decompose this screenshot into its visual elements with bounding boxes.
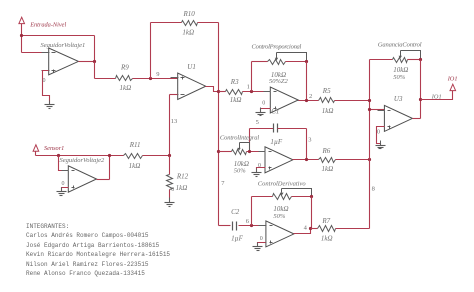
wire prop output bbox=[299, 100, 319, 102]
wire P3 left lead bbox=[252, 196, 273, 198]
wire P1 right lead bbox=[286, 61, 307, 63]
svg-text:9: 9 bbox=[156, 71, 159, 78]
wiper P1 bbox=[277, 53, 307, 62]
ground R12 bbox=[165, 198, 175, 207]
pin 8 label bbox=[372, 186, 375, 193]
svg-text:50%: 50% bbox=[234, 167, 247, 174]
node integral output junction bbox=[305, 158, 308, 161]
pin 5 label bbox=[256, 119, 259, 126]
node R5 bus junction bbox=[368, 99, 371, 102]
net 0 label integral bbox=[258, 163, 261, 169]
wiper P2 bbox=[240, 143, 250, 152]
wire P1 left lead bbox=[252, 61, 268, 63]
value P2 percent bbox=[234, 167, 247, 174]
ground A2 bbox=[57, 188, 67, 196]
svg-text:0: 0 bbox=[262, 100, 265, 106]
wire R6 to sum bus bbox=[336, 159, 370, 161]
svg-text:4: 4 bbox=[304, 225, 308, 232]
svg-text:0: 0 bbox=[43, 78, 46, 84]
net 0 label derivative bbox=[260, 236, 263, 242]
ground U3 bbox=[376, 141, 386, 149]
ground prop bbox=[256, 108, 266, 116]
wire derivative plus to ground bbox=[258, 243, 266, 247]
svg-text:1kΩ: 1kΩ bbox=[120, 84, 132, 92]
wire P3 right vertical bbox=[311, 197, 313, 229]
svg-text:ControlProporcional: ControlProporcional bbox=[252, 43, 302, 50]
label R9 bbox=[120, 63, 129, 71]
svg-text:10kΩ: 10kΩ bbox=[393, 66, 408, 74]
node A1 output junction bbox=[93, 60, 96, 63]
value R9 1k bbox=[120, 84, 132, 92]
svg-text:IO1: IO1 bbox=[431, 93, 442, 100]
pin 2 label bbox=[309, 93, 312, 100]
node bus integral junction bbox=[217, 150, 220, 153]
potentiometer GananciaControl bbox=[393, 51, 408, 63]
wire node 13 vertical bbox=[169, 95, 171, 156]
pin 13 label bbox=[171, 118, 178, 125]
svg-text:1kΩ: 1kΩ bbox=[322, 107, 334, 115]
svg-text:7: 7 bbox=[221, 180, 225, 187]
wire C2 to opamp bbox=[239, 225, 266, 227]
svg-text:R6: R6 bbox=[322, 147, 331, 155]
wire output down to R9 row bbox=[94, 62, 96, 79]
node derivative input junction bbox=[250, 224, 253, 227]
net label IO1 bbox=[447, 75, 458, 82]
node U1 output junction bbox=[217, 90, 220, 93]
value PG 10k bbox=[393, 66, 408, 74]
wiper GananciaControl bbox=[401, 51, 421, 60]
wiper P3 bbox=[282, 189, 312, 197]
value R11 1k bbox=[129, 162, 141, 170]
svg-text:10kΩ: 10kΩ bbox=[273, 205, 288, 213]
wire Sensor1 down bbox=[35, 152, 37, 156]
resistor R3 bbox=[226, 90, 243, 95]
wire IO1 bbox=[421, 91, 453, 100]
resistor R5 bbox=[319, 98, 335, 103]
svg-text:1µF: 1µF bbox=[270, 138, 283, 146]
pin 6 label bbox=[246, 218, 250, 225]
wire U3 plus to ground bbox=[377, 127, 385, 146]
resistor R10 bbox=[182, 21, 198, 26]
net 0 label U3 bbox=[377, 130, 380, 136]
wire to A1 minus input bbox=[22, 52, 49, 54]
ground A1 bbox=[45, 101, 55, 109]
pin 3 label bbox=[308, 137, 311, 144]
wire R10 left vertical bbox=[150, 23, 152, 79]
wire derivative output jog bbox=[294, 229, 311, 234]
node A2 output junction bbox=[108, 154, 111, 157]
node Ganancia wiper junction bbox=[419, 58, 422, 61]
wire U3 output bbox=[413, 118, 421, 120]
label R5 bbox=[322, 87, 331, 95]
value R12 1k bbox=[176, 184, 188, 192]
svg-text:1kΩ: 1kΩ bbox=[322, 165, 334, 173]
wire sum bus vertical bbox=[369, 60, 371, 229]
wire R12 to ground bbox=[169, 190, 171, 203]
node U3 minus junction bbox=[368, 108, 371, 111]
svg-text:0: 0 bbox=[171, 187, 174, 193]
value P3 percent bbox=[273, 213, 286, 220]
value R6 1k bbox=[322, 165, 334, 173]
op-amp SeguidorVoltaje1 bbox=[42, 48, 86, 75]
net label Entrada-Nivel bbox=[29, 21, 66, 28]
wire U1 output jog bbox=[206, 87, 219, 92]
ground integral bbox=[252, 169, 262, 177]
resistor R9 bbox=[116, 76, 133, 81]
wire A2 plus to ground bbox=[62, 188, 69, 192]
svg-text:0: 0 bbox=[377, 130, 380, 136]
label C1 bbox=[271, 108, 279, 116]
wire output vertical bbox=[420, 60, 422, 119]
value R7 1k bbox=[321, 234, 333, 242]
resistor R7 bbox=[318, 226, 336, 232]
svg-text:50%: 50% bbox=[273, 213, 286, 220]
svg-text:R11: R11 bbox=[129, 141, 141, 149]
wire Ganancia left lead bbox=[370, 59, 393, 61]
svg-text:U1: U1 bbox=[187, 63, 196, 71]
svg-text:U3: U3 bbox=[394, 95, 403, 103]
svg-text:SeguidorVoltaje2: SeguidorVoltaje2 bbox=[60, 157, 106, 164]
value C2 1uF bbox=[231, 234, 244, 242]
wire R10 right lead bbox=[198, 22, 219, 24]
pin 7 label bbox=[221, 180, 225, 187]
svg-text:ControlIntegral: ControlIntegral bbox=[220, 135, 259, 142]
node junction Entrada bbox=[20, 34, 23, 37]
resistor R6 bbox=[319, 158, 336, 163]
node 13 junction bbox=[168, 154, 171, 157]
wire follower1 feedback top bbox=[22, 35, 95, 37]
svg-text:6: 6 bbox=[246, 218, 250, 225]
wire R11 to node 13 bbox=[143, 155, 170, 157]
wire R5 to sum bus bbox=[335, 100, 370, 102]
wire to R7 bbox=[311, 228, 318, 230]
wire A1 plus to ground jog bbox=[43, 71, 50, 105]
net 0 label A1 bbox=[43, 78, 46, 84]
value C1 1uF bbox=[270, 138, 283, 146]
wire P2 to opamp bbox=[247, 151, 266, 153]
ground derivative bbox=[253, 243, 263, 251]
net 0 label R12 bbox=[171, 187, 174, 193]
svg-text:2: 2 bbox=[309, 93, 312, 100]
label ControlProporcional bbox=[252, 43, 302, 50]
wire to R12 bbox=[169, 156, 171, 175]
svg-text:C1: C1 bbox=[271, 108, 279, 116]
input flag Entrada-Nivel bbox=[19, 17, 25, 23]
svg-text:Entrada-Nivel: Entrada-Nivel bbox=[29, 21, 66, 28]
wire integral plus to ground bbox=[257, 168, 266, 173]
label ControlIntegral bbox=[220, 135, 259, 142]
svg-text:8: 8 bbox=[372, 186, 375, 193]
op-amp integral bbox=[259, 147, 300, 173]
svg-text:50%Z2: 50%Z2 bbox=[269, 78, 289, 85]
svg-text:R3: R3 bbox=[230, 78, 239, 86]
svg-text:0: 0 bbox=[62, 181, 65, 187]
label U1 bbox=[187, 63, 196, 71]
wire bus to R3 bbox=[219, 91, 226, 93]
op-amp U3 bbox=[378, 105, 420, 131]
wire bus to P2 bbox=[219, 151, 232, 153]
integrantes text block bbox=[26, 222, 170, 279]
op-amp proportional bbox=[264, 87, 306, 113]
label C2 bbox=[231, 208, 240, 216]
wire A1 output bbox=[79, 61, 95, 63]
label R7 bbox=[321, 217, 330, 225]
wire U1 minus left bbox=[170, 94, 178, 96]
net 0 label prop bbox=[262, 100, 265, 106]
value P3 10k bbox=[273, 205, 288, 213]
svg-text:50%: 50% bbox=[393, 74, 406, 81]
wire C1 left vertical bbox=[249, 129, 251, 152]
label R3 bbox=[230, 78, 239, 86]
op-amp U1 bbox=[171, 73, 213, 99]
svg-text:IO1: IO1 bbox=[447, 75, 458, 82]
value PG percent bbox=[393, 74, 406, 81]
net IO1 wire label bbox=[431, 93, 442, 100]
svg-text:0: 0 bbox=[258, 163, 261, 169]
svg-text:5: 5 bbox=[256, 119, 259, 126]
potentiometer ControlIntegral bbox=[232, 143, 247, 155]
input flag Sensor1 bbox=[33, 145, 39, 151]
wire follower1 feedback right bbox=[94, 36, 96, 62]
value P1 10k bbox=[271, 71, 286, 79]
wire R10 left lead bbox=[151, 22, 182, 24]
wire Entrada vertical bbox=[21, 24, 23, 53]
node R6 bus junction bbox=[368, 158, 371, 161]
resistor R11 bbox=[124, 154, 143, 159]
svg-text:3: 3 bbox=[308, 137, 311, 144]
svg-text:SeguidorVoltaje1: SeguidorVoltaje1 bbox=[41, 42, 86, 49]
svg-text:0: 0 bbox=[260, 236, 263, 242]
wire Ganancia right lead bbox=[408, 59, 421, 61]
pin 9 label bbox=[156, 71, 159, 78]
label R12 bbox=[176, 173, 189, 181]
wire P3 left vertical bbox=[251, 197, 253, 226]
wire A2 output bbox=[97, 179, 110, 181]
net 1 label bbox=[247, 84, 250, 91]
svg-text:R12: R12 bbox=[176, 173, 189, 181]
label SeguidorVoltaje1 bbox=[41, 42, 86, 49]
wire bus bottom to C2 bbox=[219, 225, 231, 227]
value P2 10k bbox=[234, 160, 249, 168]
svg-text:ControlDerivativo: ControlDerivativo bbox=[258, 180, 307, 187]
node prop input junction bbox=[250, 90, 253, 93]
svg-text:R10: R10 bbox=[183, 10, 196, 18]
value P1 percent bbox=[269, 78, 289, 85]
svg-text:1µF: 1µF bbox=[231, 234, 244, 242]
node IO1 junction bbox=[419, 98, 422, 101]
svg-text:1kΩ: 1kΩ bbox=[176, 184, 188, 192]
value R5 1k bbox=[322, 107, 334, 115]
svg-text:Sensor1: Sensor1 bbox=[44, 145, 64, 152]
capacitor C2 bbox=[233, 222, 237, 231]
node P1 wiper junction bbox=[305, 60, 308, 63]
wire C1 right lead bbox=[278, 128, 307, 130]
svg-text:C2: C2 bbox=[231, 208, 240, 216]
resistor R12 bbox=[167, 175, 173, 190]
value R10 1k bbox=[182, 28, 194, 36]
label ControlDerivativo bbox=[258, 180, 307, 187]
node derivative output junction bbox=[309, 227, 312, 230]
label GananciaControl bbox=[378, 41, 422, 48]
svg-text:GananciaControl: GananciaControl bbox=[378, 41, 422, 48]
svg-text:1kΩ: 1kΩ bbox=[129, 162, 141, 170]
node Sensor1 junction bbox=[57, 154, 60, 157]
wire A2 minus jog bbox=[59, 156, 69, 171]
wire prop plus to ground bbox=[261, 109, 271, 113]
capacitor C1 bbox=[274, 124, 278, 133]
net 0 label A2 bbox=[62, 181, 65, 187]
wire integral output bbox=[293, 159, 319, 161]
op-amp derivative bbox=[259, 221, 301, 247]
svg-text:1: 1 bbox=[247, 84, 250, 91]
svg-text:R5: R5 bbox=[322, 87, 331, 95]
net label Sensor1 bbox=[44, 145, 64, 152]
potentiometer ControlDerivativo bbox=[273, 189, 292, 200]
wire R9 to U1 bbox=[133, 78, 178, 80]
svg-text:1kΩ: 1kΩ bbox=[230, 96, 242, 104]
label U3 bbox=[394, 95, 403, 103]
svg-text:1kΩ: 1kΩ bbox=[182, 28, 194, 36]
wire C1 left lead bbox=[250, 128, 274, 130]
node prop output junction bbox=[305, 99, 308, 102]
wire C1 right vertical bbox=[306, 129, 308, 160]
wire to R9 bbox=[95, 78, 116, 80]
wire main bus vertical bbox=[218, 23, 220, 226]
pin 4 label bbox=[304, 225, 308, 232]
wire R3 to prop opamp bbox=[243, 91, 271, 93]
output flag IO1 bbox=[450, 84, 456, 90]
wire R7 to sum bus bbox=[336, 228, 370, 230]
label R6 bbox=[322, 147, 331, 155]
node P3 wiper junction bbox=[310, 195, 313, 198]
label SeguidorVoltaje2 bbox=[60, 157, 106, 164]
wire P1 left vertical bbox=[251, 62, 253, 92]
svg-text:13: 13 bbox=[171, 118, 178, 125]
svg-text:1kΩ: 1kΩ bbox=[321, 234, 333, 242]
wire Sensor1 row bbox=[36, 155, 124, 157]
wire A2 feedback up bbox=[109, 156, 111, 180]
wire U3 minus bbox=[370, 109, 385, 111]
svg-text:R9: R9 bbox=[120, 63, 129, 71]
value R3 1k bbox=[230, 96, 242, 104]
wire P1 right vertical bbox=[306, 62, 308, 101]
svg-text:R7: R7 bbox=[321, 217, 330, 225]
node integral input junction bbox=[248, 150, 251, 153]
potentiometer ControlProporcional bbox=[268, 53, 286, 65]
wire P3 right lead bbox=[292, 196, 312, 198]
node 9 junction bbox=[149, 77, 152, 80]
label R10 bbox=[183, 10, 196, 18]
op-amp SeguidorVoltaje2 bbox=[62, 166, 104, 192]
label R11 bbox=[129, 141, 141, 149]
